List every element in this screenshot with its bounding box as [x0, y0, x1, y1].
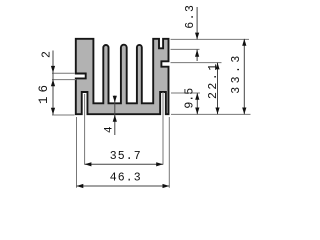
- right extension line base bottom: [171, 113, 251, 115]
- heatsink profile body: [76, 39, 169, 114]
- svg-text:33.3: 33.3: [230, 52, 243, 94]
- svg-text:16: 16: [37, 81, 51, 104]
- arrow 6.3 up: [195, 50, 199, 57]
- extension line right edge down: [168, 117, 170, 188]
- arrow 46.3 right: [163, 184, 170, 188]
- extension line left slot down: [84, 94, 86, 165]
- left extension line notch bottom: [52, 79, 76, 81]
- svg-text:6.3: 6.3: [184, 4, 197, 29]
- svg-text:4: 4: [104, 126, 116, 133]
- right extension line notch: [171, 62, 222, 64]
- arrow 2/16 up: [51, 79, 55, 86]
- arrow 22.1 down: [215, 108, 219, 115]
- arrow 6.3 down: [195, 33, 199, 40]
- dimension line 4 vertical: [114, 96, 116, 136]
- svg-text:22.1: 22.1: [207, 61, 220, 99]
- dimension line 22.1: [217, 63, 219, 115]
- dimension line 9.5: [196, 93, 198, 114]
- left extension line notch top: [52, 72, 75, 74]
- left extension line base bottom: [52, 114, 75, 116]
- right extension line slot top: [171, 92, 200, 94]
- dimension line 33.3: [243, 39, 245, 114]
- arrow 4-bottom up: [113, 115, 117, 122]
- dimension line 6.3: [196, 7, 198, 39]
- arrow 35.7 right: [156, 162, 163, 166]
- arrow 9.5 up: [195, 93, 199, 100]
- dimension line 46.3: [77, 185, 170, 187]
- arrow 4-top down: [113, 96, 117, 103]
- svg-text:9.5: 9.5: [184, 88, 197, 109]
- arrow 2-top down: [51, 66, 55, 73]
- extension line right slot down: [162, 92, 164, 165]
- dimension line left vertical: [52, 51, 54, 115]
- arrow 33.3 up: [242, 39, 246, 46]
- arrow 35.7 left: [85, 162, 92, 166]
- arrow 22.1 up: [215, 63, 219, 70]
- extension line left edge down: [76, 117, 78, 188]
- arrow 33.3 down: [242, 108, 246, 115]
- dimension line 35.7: [85, 163, 163, 165]
- svg-text:35.7: 35.7: [110, 150, 142, 163]
- svg-text:2: 2: [40, 51, 53, 58]
- svg-text:46.3: 46.3: [110, 172, 142, 185]
- arrow 46.3 left: [77, 184, 84, 188]
- arrow 16-bottom down: [51, 108, 55, 115]
- right extension line slot bottom: [171, 48, 200, 50]
- right extension line top: [171, 38, 250, 40]
- arrow 9.5 down: [195, 108, 199, 115]
